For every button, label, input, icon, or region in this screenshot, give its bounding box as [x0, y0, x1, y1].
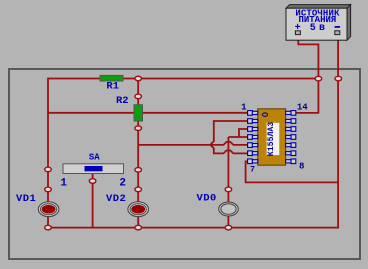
svg-text:К155ЛА3: К155ЛА3: [267, 122, 276, 156]
power supply 3d top face: [286, 5, 351, 9]
wire supply plus drop: [298, 35, 318, 79]
IC U1 K155LA3 body: [258, 109, 286, 165]
pin 12: [286, 127, 296, 132]
wire R2 SA2 VD2 vertical: [137, 79, 139, 228]
wire bottom ground rail: [48, 227, 339, 229]
node ring R1 right rail: [135, 76, 142, 81]
node ring SA common: [89, 179, 96, 184]
power supply 3d right face: [347, 5, 351, 41]
node ring minus wire: [335, 76, 342, 81]
pin 10: [286, 143, 296, 148]
node ring R2 bottom: [135, 126, 142, 131]
node ring VD1 top: [45, 187, 52, 192]
node ring VD1 bottom: [45, 225, 52, 230]
pin 13: [286, 119, 296, 124]
node ring VD0 top: [225, 187, 232, 192]
power supply front face: [286, 8, 347, 40]
svg-text:VD2: VD2: [106, 193, 126, 205]
pin 11: [286, 135, 296, 140]
svg-text:R2: R2: [116, 95, 129, 107]
resistor R1: [100, 75, 123, 81]
pin 5: [248, 143, 258, 148]
wire VD1 branch: [47, 169, 49, 227]
svg-text:SA: SA: [89, 153, 100, 163]
pin 6: [248, 151, 258, 156]
wire left vertical: [47, 78, 49, 170]
node ring SA pin2: [135, 168, 142, 173]
pin 9: [286, 151, 296, 156]
wire rail to pin 1: [48, 112, 249, 114]
svg-text:5: 5: [310, 23, 316, 34]
wire plus to pin 14: [296, 79, 318, 113]
svg-text:8: 8: [299, 161, 304, 171]
board frame: [9, 69, 360, 259]
node ring SA pin1: [45, 167, 52, 172]
svg-text:+: +: [295, 23, 301, 34]
LED VD1: [38, 202, 59, 217]
pin 8: [286, 159, 296, 164]
wire pins 3 4 to VD0 vertical: [227, 137, 229, 228]
switch SA: [63, 164, 124, 174]
pin 1: [248, 111, 258, 116]
node ring VD0 bottom: [225, 225, 232, 230]
IC pins right: [286, 111, 296, 164]
wire pin 3 jog: [239, 129, 250, 137]
pin 4: [248, 135, 258, 140]
pin 14: [286, 111, 296, 116]
resistor R2: [134, 105, 143, 121]
pin 3: [248, 127, 258, 132]
node ring R2 top: [135, 94, 142, 99]
svg-text:в: в: [319, 23, 325, 34]
LED VD2: [128, 202, 149, 217]
svg-text:2: 2: [119, 177, 126, 189]
IC pin1 marker: [262, 113, 267, 116]
wire supply minus drop: [337, 35, 339, 228]
IC label plate: [267, 123, 280, 155]
wire pin 2 to pin 6 with kink and hop: [210, 121, 249, 153]
wire top +5V rail: [48, 78, 318, 80]
svg-text:VD0: VD0: [197, 193, 217, 205]
node ring VD2 bottom: [135, 225, 142, 230]
node ring plus rail end: [315, 76, 322, 81]
power supply minus sign: [335, 26, 340, 28]
pin 2: [248, 119, 258, 124]
svg-text:1: 1: [241, 103, 247, 113]
power supply minus terminal: [335, 31, 340, 35]
power supply plus terminal: [295, 31, 300, 35]
wire R2 bottom to pin 5 with hop: [138, 142, 249, 145]
switch SA toggle: [85, 166, 103, 171]
svg-text:14: 14: [297, 103, 308, 113]
wire pin 7 to ground: [246, 161, 339, 182]
wire SA common down: [92, 174, 94, 228]
pin 7: [248, 159, 258, 164]
svg-text:1: 1: [60, 177, 67, 189]
svg-text:7: 7: [250, 165, 255, 175]
svg-text:R1: R1: [106, 81, 119, 93]
IC pins left: [248, 111, 258, 164]
LED VD0 off: [219, 202, 239, 216]
svg-text:VD1: VD1: [16, 193, 36, 205]
svg-text:ПИТАНИЯ: ПИТАНИЯ: [298, 15, 336, 25]
node ring VD2 top: [135, 187, 142, 192]
wire pin 4 to junction: [228, 136, 249, 138]
